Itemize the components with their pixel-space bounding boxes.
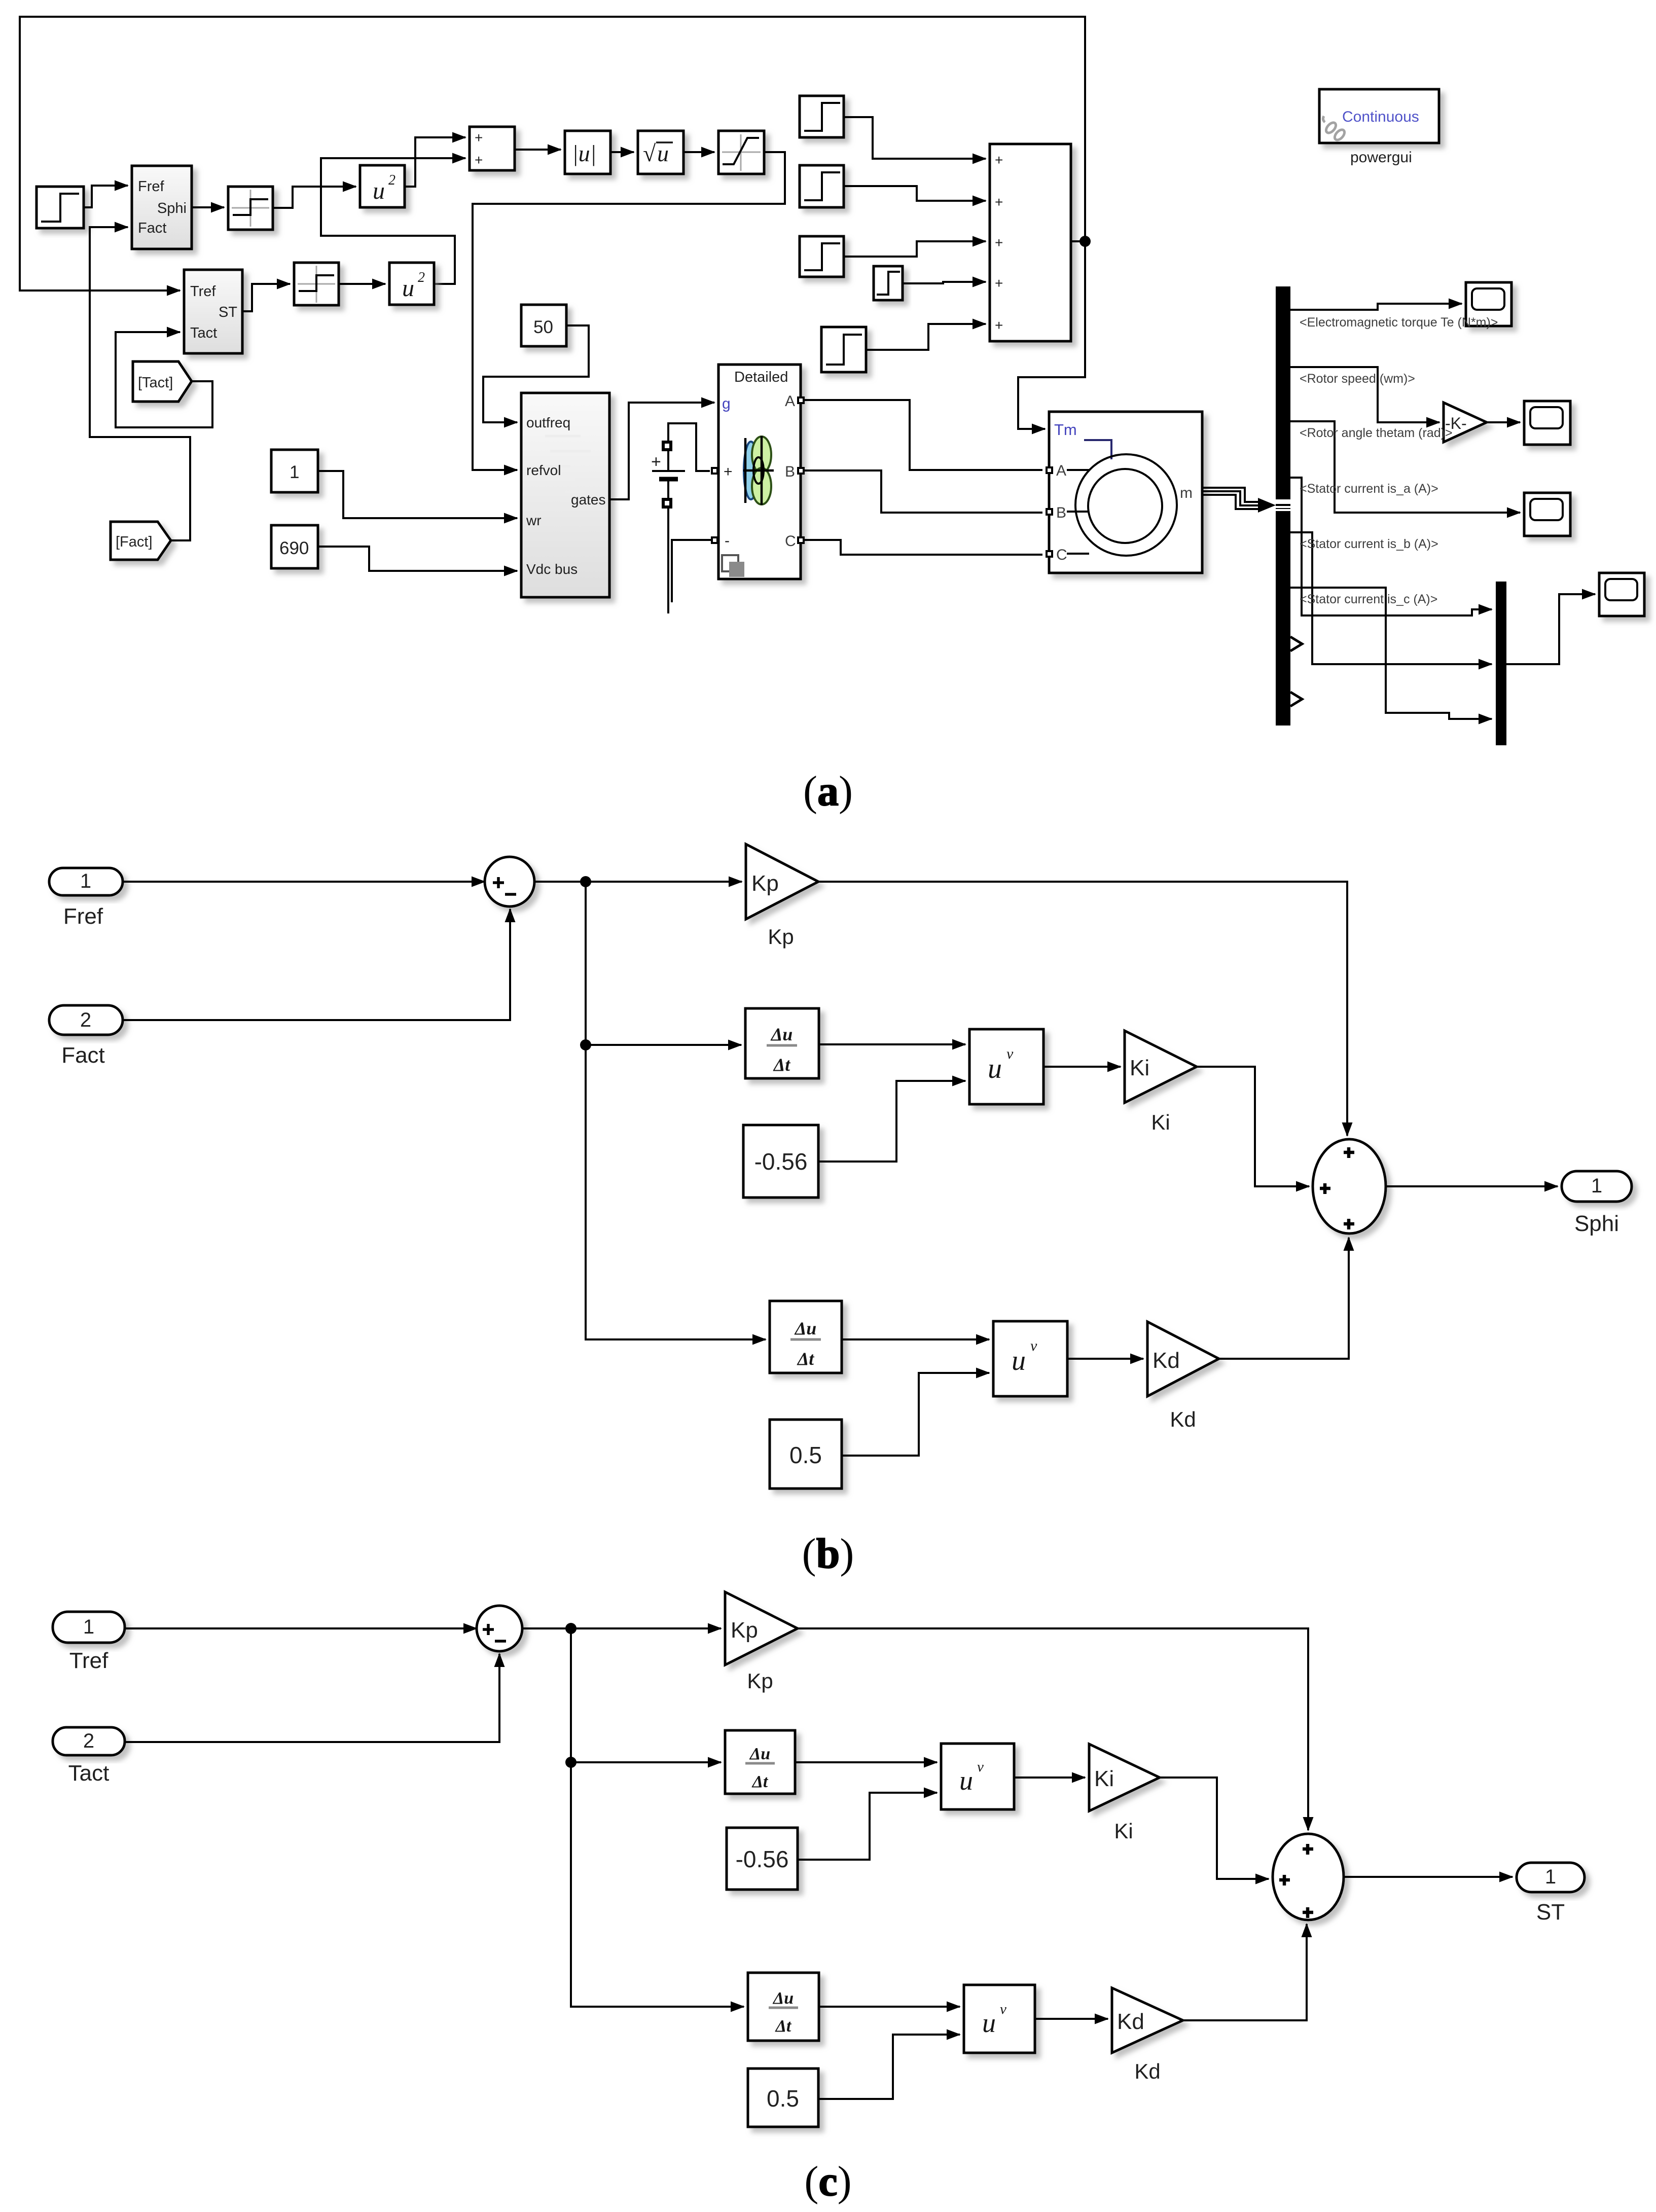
constant -0.56 (c) [727,1828,798,1890]
From tag [Tact] [133,361,192,402]
svg-text:u: u [959,1765,973,1796]
caption (b) [802,1530,854,1577]
signal label Electromagnetic torque [1300,315,1498,330]
wire trunk vertical (c) [571,1628,744,2007]
wire feedback frame from Add5 output to Tref input (top/left frame) [20,17,1085,291]
wire rotor angle to Scope3 [1290,421,1520,513]
svg-text:(b): (b) [802,1530,854,1577]
svg-text:Tm: Tm [1054,421,1077,439]
svg-text:0.5: 0.5 [767,2085,799,2112]
svg-text:-0.56: -0.56 [736,1846,789,1872]
wire Add5 output to junction [1071,240,1085,242]
wire Ki output to big sum left input (c) [1160,1778,1269,1879]
svg-text:u: u [373,177,385,204]
wire SAT2 to u2 second [339,283,385,285]
svg-text:Kd: Kd [1153,1348,1180,1373]
svg-text:powergui: powergui [1350,149,1412,166]
svg-text:(a): (a) [803,768,853,815]
wire Mux output to Scope4 [1506,594,1595,664]
saturation block SAT2 [294,263,339,305]
derivative block du/dt c2 [748,1973,819,2041]
svg-text:<Stator current is_a (A)>: <Stator current is_a (A)> [1300,482,1438,496]
svg-text:+: + [724,463,733,480]
math function block u^2 (first) [360,165,405,207]
svg-text:v: v [1006,1045,1014,1062]
svg-text:Kp: Kp [731,1618,758,1643]
svg-text:+: + [995,152,1003,168]
wire Detailed B to motor B [805,470,1042,513]
wire u^v to Ki [1043,1066,1121,1068]
unconnected bus selector chevron output 2 [1290,692,1302,706]
svg-text:<Electromagnetic torque Te (N*: <Electromagnetic torque Te (N*m)> [1300,315,1498,330]
wire stator current is_c to Mux input 3 [1290,588,1492,719]
svg-text:B: B [1056,504,1066,521]
svg-text:Vdc bus: Vdc bus [526,561,578,577]
constant block "1" [271,450,318,492]
sum circle S1 (Fref-Fact) [485,857,534,906]
node junction of Add5 output, frame and Tm wire [1079,236,1091,247]
node trunk junction 2 [580,1039,591,1050]
wire -0.56 to u^v c1 exponent input [798,1793,937,1860]
signal label Stator current is_a [1300,482,1438,496]
signal label Rotor speed [1300,372,1415,386]
mux block MUX1 [1496,582,1506,745]
wire constant 50 to outfreq input [483,325,589,422]
constant -0.56 (b) [743,1125,818,1198]
derivative block du/dt 2 [770,1301,842,1373]
wire Sphi output to saturation [192,206,224,208]
wire From[Fact] to Fact input [90,227,190,540]
svg-text:Detailed: Detailed [734,369,788,385]
port pads of motor A B C [1046,466,1053,558]
gain Kd (c) [1112,1988,1183,2053]
svg-text:v: v [977,1759,984,1775]
wire u^v c2 to Kd (c) [1035,2018,1108,2020]
svg-text:Kp: Kp [747,1669,773,1693]
wire constant 1 to wr input [318,471,517,518]
svg-text:gates: gates [571,492,606,507]
svg-text:Δt: Δt [751,1772,769,1791]
svg-text:Tref: Tref [69,1648,109,1673]
wire Kp output to big sum top (c) [798,1628,1308,1830]
wire -0.56 to u^v exponent input [818,1081,965,1162]
Detailed converter icon (thyristor wheel) [743,436,774,505]
inport 2 Tact [53,1727,125,1755]
svg-text:+: + [475,130,483,146]
svg-text:v: v [1000,2001,1006,2017]
math power block u^v 1 [969,1029,1043,1104]
big sum ellipse (c) [1273,1834,1344,1920]
svg-text:g: g [722,395,731,412]
gain Ki (c) [1089,1744,1160,1811]
svg-text:<Rotor speed (wm)>: <Rotor speed (wm)> [1300,372,1415,386]
wire rotor speed to gain -K- [1290,367,1439,422]
svg-text:Sphi: Sphi [157,200,187,216]
wire Step1 to Fref input [84,186,128,207]
svg-text:0.5: 0.5 [789,1442,822,1468]
svg-text:|u|: |u| [572,140,596,166]
inport 2 Fact [49,1005,123,1035]
step source Step6 [821,327,866,372]
subsystem U1 frequency PID (Fref/Fact -> Sphi) [132,166,192,249]
DC voltage source battery B1 [651,423,710,613]
wire Kp output to big sum top [818,882,1347,1136]
svg-text:Ki: Ki [1151,1110,1170,1134]
svg-text:Tact: Tact [190,325,217,341]
wire Kd output to big sum bottom input [1219,1238,1349,1359]
derivative block du/dt 1 [745,1008,819,1078]
wire SAT1 to u2 square block [273,187,356,208]
abs block |u| [565,131,610,174]
svg-text:-: - [725,532,730,549]
wire u2 first to Add2 input 1 [405,137,465,187]
sum block Add5 (torque steps) [990,144,1071,341]
wire torque Te to Scope1 [1290,304,1462,310]
svg-text:u: u [982,2008,996,2038]
svg-text:2: 2 [80,1009,91,1031]
svg-text:50: 50 [533,317,553,337]
inport 1 Tref [53,1612,125,1643]
svg-text:Tact: Tact [68,1761,110,1786]
math power block u^v c1 [941,1744,1014,1809]
svg-text:(c): (c) [804,2158,851,2205]
svg-text:+: + [995,235,1003,250]
wire Detailed A to motor A [805,400,1042,470]
port pads of Detailed A B C + - [711,396,805,544]
wire Step3 to Add5 input 2 [844,186,986,201]
svg-text:1: 1 [1591,1175,1602,1197]
svg-text:Δt: Δt [797,1349,815,1369]
wire 0.5 to u^v 2 exponent input [842,1373,989,1456]
wire Fact to sum minus input [123,909,510,1020]
outport 1 Sphi [1562,1171,1632,1202]
wire u2 second to Add2 input 2 [321,158,465,284]
svg-text:u: u [988,1053,1002,1084]
svg-text:wr: wr [526,513,542,528]
wire Step2 to Add5 input 1 [844,117,986,159]
svg-text:Sphi: Sphi [1574,1211,1619,1236]
svg-text:C: C [785,533,796,550]
wire u^v c1 to Ki (c) [1014,1776,1085,1779]
svg-text:v: v [1030,1337,1037,1354]
wire trunk branch to derivative 1 [586,1044,741,1046]
svg-text:m: m [1180,485,1193,501]
wire Kd output to big sum bottom input (c) [1183,1924,1307,2020]
svg-text:+: + [995,317,1003,333]
wire Fref to sum [123,881,485,883]
wire sum output to Kp and trunk [534,881,742,883]
wire trunk vertical [586,882,766,1339]
svg-text:Ki: Ki [1130,1056,1149,1080]
step source Step3 [800,165,844,207]
saturation block SAT3 [718,131,764,174]
wire Detailed minus terminal stub [672,540,714,602]
unconnected bus selector chevron output 1 [1290,637,1302,651]
gain block -K- [1444,403,1487,442]
scope Scope4 (three phase currents) [1599,573,1644,616]
wire trunk branch to derivative c1 [571,1761,721,1763]
caption (c) [804,2158,851,2205]
svg-text:refvol: refvol [526,462,561,478]
sum circle S2 (Tref-Tact) [477,1606,522,1651]
wire 0.5 to u^v c2 exponent input [818,2035,960,2099]
svg-text:A: A [1056,462,1066,479]
wire stator current is_a to Mux input 1 [1290,478,1492,615]
svg-text:+: + [651,452,661,472]
inport 1 Fref [49,868,123,895]
big sum ellipse (b) [1313,1139,1386,1234]
signal label Rotor angle [1300,426,1453,440]
subsystem U2 torque PID (Tref/Tact -> ST) [184,270,242,353]
wire big sum to outport Sphi [1386,1185,1558,1187]
svg-text:√: √ [643,140,656,166]
svg-text:Δu: Δu [794,1318,817,1338]
constant block "50" [521,305,566,346]
svg-text:Δt: Δt [775,2017,792,2036]
step source Step1 (Fref reference) [37,187,84,228]
svg-text:u: u [1012,1345,1026,1376]
math power block u^v 2 [993,1321,1067,1396]
wire Step6 to Add5 input 5 [866,324,986,350]
svg-text:Ki: Ki [1094,1766,1114,1791]
wire sqrt to saturation SAT3 [683,151,714,153]
constant 0.5 (b) [770,1420,842,1489]
wire derivative 1 to u^v [819,1043,965,1045]
subsystem U3 converter control (outfreq/refvol/wr/Vdc bus -> gates) [521,393,609,597]
math power block u^v c2 [964,1985,1035,2053]
wire constant 690 to Vdc bus input [318,547,517,571]
signal label Stator current is_c [1300,592,1437,606]
svg-text:690: 690 [279,538,309,558]
math function block u^2 (second) [389,263,434,305]
svg-text:2: 2 [418,270,425,285]
step source Step5 (small) [874,266,903,300]
svg-text:Kd: Kd [1170,1407,1196,1431]
wire derivative 2 to u^v 2 [842,1338,989,1340]
wire Step5 to Add5 input 4 [903,282,986,283]
svg-text:<Stator current is_b (A)>: <Stator current is_b (A)> [1300,537,1438,551]
svg-text:Fref: Fref [63,904,103,929]
svg-text:Δu: Δu [770,1024,793,1044]
svg-text:Fact: Fact [138,220,166,236]
subsystem U4 Detailed three-phase converter [718,365,801,579]
svg-text:1: 1 [83,1616,94,1638]
svg-text:+: + [995,194,1003,210]
wire SAT3 to refvol input of converter control [473,152,785,470]
constant block "690" [271,525,318,568]
wire From[Tact] to Tact input [116,332,212,427]
svg-text:A: A [785,393,795,410]
wire derivative c1 to u^v c1 [795,1761,937,1763]
svg-text:B: B [785,463,795,480]
svg-text:[Fact]: [Fact] [116,534,153,550]
svg-text:ST: ST [219,304,237,320]
svg-text:ST: ST [1536,1900,1565,1925]
wire Step4 to Add5 input 3 [844,241,986,257]
svg-text:outfreq: outfreq [526,415,570,430]
svg-text:<Stator current is_c (A)>: <Stator current is_c (A)> [1300,592,1437,606]
wire Tm feed from junction down to motor [1018,241,1085,429]
scope Scope3 (rotor angle) [1524,493,1570,536]
scope Scope2 (rotor speed) [1524,401,1570,445]
svg-text:1: 1 [290,462,299,482]
derivative block du/dt c1 [725,1730,795,1794]
svg-text:Kp: Kp [751,871,779,896]
From tag [Fact] [111,522,171,560]
signal label Stator current is_b [1300,537,1438,551]
wire Tact to sum minus input [125,1654,499,1742]
gain Kp (b) [746,844,818,919]
constant 0.5 (c) [748,2069,818,2127]
caption (a) [803,768,853,815]
node trunk junction 1 [580,876,591,887]
gain Ki (b) [1125,1031,1197,1103]
svg-text:Tref: Tref [190,283,216,300]
svg-text:Δu: Δu [749,1745,770,1763]
wire Tref to sum [125,1627,477,1629]
svg-text:+: + [475,152,483,168]
wire Add2 to abs block [515,149,561,151]
step source Step4 [800,236,844,277]
svg-text:1: 1 [1545,1866,1556,1888]
wire derivative c2 to u^v c2 [819,2006,960,2008]
saturation block SAT1 [228,187,273,230]
outport 1 ST [1517,1863,1585,1892]
wire Detailed C to motor C [805,540,1042,555]
svg-text:-0.56: -0.56 [754,1148,808,1175]
svg-text:[Tact]: [Tact] [138,375,173,391]
wire abs to sqrt [610,151,634,153]
sum block Add2 [470,127,515,170]
svg-text:u: u [402,275,414,302]
svg-text:Fact: Fact [61,1043,105,1068]
gain Kd (b) [1147,1322,1219,1396]
wire gain to Scope2 [1487,421,1520,423]
svg-text:Fref: Fref [138,178,165,195]
svg-text:Δt: Δt [773,1055,791,1075]
svg-text:Continuous: Continuous [1342,108,1419,125]
svg-text:2: 2 [83,1730,94,1752]
svg-text:Kd: Kd [1117,2009,1144,2034]
step source Step2 [800,96,844,137]
powergui block [1319,89,1439,143]
node trunk junction 2 (c) [565,1757,577,1768]
svg-text:Kd: Kd [1134,2059,1160,2083]
gain Kp (c) [725,1592,798,1665]
wire big sum to outport ST [1344,1876,1513,1878]
wire Ki output to big sum left input [1197,1067,1309,1186]
svg-text:1: 1 [80,870,91,892]
svg-text:+: + [995,275,1003,291]
wire sum output to Kp (c) [522,1627,721,1629]
svg-text:Δu: Δu [772,1989,794,2008]
svg-text:C: C [1056,547,1067,563]
svg-text:u: u [657,140,669,166]
asynchronous machine motor M1 [1049,412,1202,573]
wire ST output to saturation SAT2 [242,284,290,311]
svg-text:Kp: Kp [768,925,794,949]
svg-text:2: 2 [388,172,395,188]
wire gates output to g input of Detailed converter [609,403,714,499]
Detailed lower-left mask icon (two squares) [722,555,744,577]
wire stator current is_b to Mux input 2 [1290,532,1492,664]
wire measurement bus m to Bus Selector (triple line) [1202,488,1276,513]
node trunk junction 1 (c) [565,1623,577,1634]
svg-text:Ki: Ki [1114,1819,1133,1843]
wire u^v 2 to Kd [1067,1358,1143,1360]
sqrt block [638,131,683,174]
scope Scope1 (torque) [1466,282,1511,326]
Bus Selector BS1 [1276,286,1290,726]
svg-text:<Rotor angle thetam (rad)>: <Rotor angle thetam (rad)> [1300,426,1453,440]
